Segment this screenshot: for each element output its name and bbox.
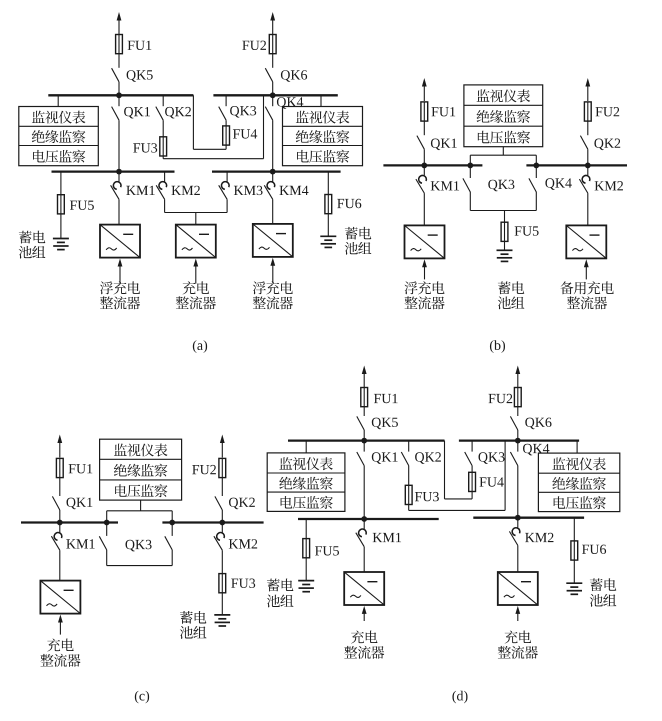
wire bus to QK3 right blade (c) bbox=[171, 523, 173, 536]
wire FU5 to battery (b) bbox=[504, 241, 506, 250]
label QK4 (a) bbox=[277, 97, 303, 109]
bus I right section (a) bbox=[213, 94, 337, 96]
wire QK4 to bus II (d) bbox=[517, 466, 519, 518]
wire QK2 to FU3 (a) bbox=[162, 120, 164, 137]
label 浮充电 (b) bbox=[405, 281, 445, 294]
switch QK6 (d) bbox=[510, 416, 517, 430]
fuse FU1 (b) bbox=[421, 102, 428, 121]
bus I right (d) bbox=[459, 439, 579, 441]
wire bus I to left monitor box (d) bbox=[305, 441, 307, 453]
junction QK1/bus (c) bbox=[57, 520, 63, 526]
diagram (d): feeder 1 arrow bbox=[362, 366, 367, 389]
diagram (c): feeder 1 arrow bbox=[57, 435, 62, 458]
wire monitor tap left drop (b) bbox=[469, 155, 471, 165]
wire KM3 down (a) bbox=[226, 199, 228, 212]
monitoring box right (d) row1 监视仪表 bbox=[552, 457, 606, 470]
label 蓄电 (b) bbox=[498, 281, 524, 294]
wire FU1 to QK1 (b) bbox=[423, 121, 425, 135]
fuse FU2 (a) bbox=[269, 35, 276, 54]
wire bus I to QK4 (a) bbox=[272, 95, 274, 106]
monitoring box left (d) row3 电压监察 bbox=[281, 496, 333, 509]
wire FU5 to battery (d) bbox=[305, 558, 307, 581]
wire bus I to monitor box (a) bbox=[57, 95, 59, 106]
label QK1 (c) bbox=[67, 498, 93, 510]
junction QK6/bus I (a) bbox=[270, 92, 276, 98]
label 整流器 rect1 (a) bbox=[100, 296, 140, 309]
bus II left section (a) bbox=[52, 170, 175, 172]
contactor KM1 (c) bbox=[51, 523, 61, 551]
label 蓄电 left (a) bbox=[19, 231, 45, 244]
monitoring box right (a) row2 绝缘监察 bbox=[296, 130, 350, 143]
switch QK5 (d) bbox=[357, 416, 364, 430]
contactor KM4 (a) bbox=[264, 172, 274, 200]
monitoring box (c) row2 绝缘监察 bbox=[114, 464, 168, 477]
contactor KM2 (d) bbox=[509, 518, 519, 546]
wire FU2 to QK2 (b) bbox=[587, 121, 589, 135]
fuse FU5 (d) bbox=[303, 539, 310, 558]
wire bus I to QK2 (a) bbox=[162, 95, 164, 106]
label QK2 (b) bbox=[594, 139, 620, 151]
label KM1 (d) bbox=[373, 533, 401, 542]
label QK4 (b) bbox=[545, 178, 571, 190]
junction QK4/bus II (a) bbox=[270, 169, 276, 175]
wire QK1 to bus (c) bbox=[59, 510, 61, 523]
switch QK2 (a) bbox=[156, 107, 163, 121]
label QK5 (a) bbox=[127, 70, 153, 82]
battery bank right (d) bbox=[566, 583, 582, 594]
switch QK3 right pole (c) bbox=[165, 536, 172, 550]
switch QK1 (d) bbox=[357, 452, 364, 466]
wire QK6 to bus I (a) bbox=[272, 82, 274, 96]
fuse FU2 (c) bbox=[219, 458, 226, 477]
label FU5 (d) bbox=[315, 546, 339, 555]
wire monitor box tap down (b) bbox=[502, 147, 504, 156]
label 池组 left (d) bbox=[267, 595, 294, 608]
label 池组 right (d) bbox=[590, 594, 617, 607]
label 蓄电 left (d) bbox=[267, 579, 293, 592]
wire bus to QK4 (b) bbox=[535, 165, 537, 178]
label QK3 (c) bbox=[125, 540, 151, 552]
wire FU1 to QK1 (c) bbox=[59, 478, 61, 496]
monitoring box left (a) row3 电压监察 bbox=[33, 150, 85, 163]
switch QK4 (b) bbox=[529, 178, 536, 192]
wire monitor box tap down (c) bbox=[140, 500, 142, 511]
caption (b) bbox=[490, 340, 505, 353]
label QK1 (b) bbox=[431, 139, 457, 151]
battery bank (b) bbox=[497, 250, 513, 261]
switch QK6 (a) bbox=[265, 68, 272, 82]
label 整流器 right (b) bbox=[567, 296, 607, 309]
monitoring box right (d) bbox=[538, 453, 619, 512]
wire bus II to FU5 (a) bbox=[60, 172, 62, 195]
wire QK5 to bus I (a) bbox=[118, 82, 120, 96]
wire FU2 to QK2 (c) bbox=[221, 478, 223, 496]
monitoring box left (d) row2 绝缘监察 bbox=[279, 477, 333, 490]
rectifier charging left (d) bbox=[344, 572, 384, 621]
wire KM1 to rectifier 1 (a) bbox=[118, 199, 120, 224]
monitoring box (c) row3 电压监察 bbox=[115, 484, 167, 497]
bus left section (b) bbox=[383, 164, 482, 166]
fuse FU6 (d) bbox=[571, 541, 578, 560]
monitoring box (c) row1 监视仪表 bbox=[114, 444, 168, 457]
wire bus II to FU5 (d) bbox=[305, 519, 307, 539]
switch QK2 (b) bbox=[580, 136, 587, 150]
wire QK3 top (a) bbox=[225, 95, 227, 106]
fuse FU3 (d) bbox=[405, 485, 412, 504]
label FU2 (a) bbox=[242, 41, 266, 50]
tie wire vertical to bus I right (a) bbox=[263, 95, 265, 158]
switch QK3 (b) bbox=[463, 178, 470, 192]
wire bus II to FU6 (d) bbox=[573, 518, 575, 541]
label 充电 (c) bbox=[47, 638, 74, 651]
battery bank (c) bbox=[214, 615, 230, 626]
junction QK6/bus I (d) bbox=[515, 438, 521, 444]
wire KM4 to rectifier 3 (a) bbox=[272, 199, 274, 224]
wire joining KM2 KM3 (a) bbox=[165, 212, 228, 214]
wire bus to QK3 (b) bbox=[469, 165, 471, 178]
wire FU5 to battery (a) bbox=[60, 214, 62, 239]
monitoring box (b) row1 监视仪表 bbox=[477, 89, 530, 102]
wire monitor tap right drop (b) bbox=[535, 155, 537, 165]
label 蓄电 right (d) bbox=[590, 578, 616, 591]
label QK3 (a) bbox=[230, 106, 256, 118]
label 池组 (b) bbox=[498, 296, 525, 309]
label 池组 left (a) bbox=[19, 246, 46, 259]
wire QK5 to bus I (d) bbox=[363, 430, 365, 441]
label QK2 (d) bbox=[415, 452, 441, 464]
monitoring box left (d) row1 监视仪表 bbox=[279, 457, 333, 470]
junction QK2/bus (b) bbox=[585, 163, 591, 169]
wire KM2 to rectifier (b) bbox=[587, 193, 589, 225]
wire QK6 to bus I (d) bbox=[517, 430, 519, 441]
rectifier charging right (d) bbox=[498, 572, 538, 621]
wire KM1 to rectifier (d) bbox=[363, 547, 365, 572]
wire QK3-QK4 join (b) bbox=[470, 210, 536, 212]
battery bank left (d) bbox=[298, 581, 314, 592]
battery bank right (a) bbox=[320, 236, 336, 247]
fuse FU2 (b) bbox=[584, 102, 591, 121]
junction QK2/bus (c) bbox=[219, 520, 225, 526]
contactor KM3 (a) bbox=[219, 172, 229, 200]
junction QK1/bus II (a) bbox=[116, 169, 122, 175]
label FU4 (a) bbox=[233, 129, 257, 138]
fuse FU1 (d) bbox=[361, 388, 368, 407]
tie wire horizontal QK3 path (a) bbox=[193, 148, 226, 150]
switch QK3 left pole (c) bbox=[99, 536, 106, 550]
wire bus I to QK1 (a) bbox=[118, 95, 120, 106]
label 浮充电 rect1 (a) bbox=[100, 281, 140, 294]
label KM1 (a) bbox=[126, 186, 154, 195]
monitoring box (b) row2 绝缘监察 bbox=[477, 110, 531, 123]
monitoring box right (d) row2 绝缘监察 bbox=[552, 477, 606, 490]
wire monitor tap right drop (c) bbox=[171, 511, 173, 523]
label FU1 (b) bbox=[432, 107, 456, 116]
monitoring box (b) bbox=[464, 85, 543, 147]
monitoring box right (a) row3 电压监察 bbox=[297, 150, 349, 163]
label FU3 (a) bbox=[133, 143, 157, 152]
wire bus I to QK1 (d) bbox=[363, 441, 365, 452]
battery bank left (a) bbox=[53, 239, 69, 250]
bus II left (d) bbox=[298, 518, 439, 520]
rectifier 3 float-charging (a) bbox=[253, 224, 293, 283]
label 备用充电 (b) bbox=[560, 281, 614, 294]
label KM2 (d) bbox=[525, 533, 553, 542]
contactor KM2 (c) bbox=[214, 523, 224, 551]
caption (d) bbox=[452, 691, 467, 704]
bus left section (c) bbox=[21, 521, 118, 523]
diagram (d): feeder 2 arrow bbox=[515, 366, 520, 389]
wire monitor tap horizontal (b) bbox=[470, 154, 536, 156]
label 整流器 rect2 (a) bbox=[176, 296, 216, 309]
label FU4 (d) bbox=[480, 477, 504, 486]
wire bus I to right monitor box (d) bbox=[576, 441, 578, 454]
wire FU4 to tie (d) bbox=[471, 491, 473, 499]
label 整流器 left (b) bbox=[404, 296, 444, 309]
wire FU6 to battery (a) bbox=[327, 214, 329, 237]
tie wire horizontal QK3 path (d) bbox=[445, 498, 473, 500]
label 蓄电 (c) bbox=[180, 611, 206, 624]
wire QK3 to FU4 (a) bbox=[225, 120, 227, 126]
switch QK2 (d) bbox=[401, 452, 408, 466]
label FU2 (d) bbox=[489, 394, 513, 403]
monitoring box left (a) row1 监视仪表 bbox=[32, 111, 86, 124]
diagram (b): feeder 1 arrow bbox=[422, 78, 427, 101]
switch QK2 (c) bbox=[215, 496, 222, 510]
label 池组 right (a) bbox=[345, 242, 372, 255]
rectifier 2 charging (a) bbox=[176, 225, 216, 284]
wire QK4 down (b) bbox=[535, 192, 537, 211]
label KM2 (a) bbox=[172, 186, 200, 195]
wire FU2 to QK6 (a) bbox=[272, 54, 274, 68]
label FU3 (c) bbox=[231, 579, 255, 588]
tie vertical from bus I left end (a) bbox=[192, 95, 194, 149]
wire KM2 to FU3 (c) bbox=[221, 550, 223, 574]
label FU3 (d) bbox=[415, 492, 439, 501]
diagram (b): feeder 2 arrow bbox=[585, 78, 590, 101]
label 蓄电 right (a) bbox=[345, 227, 371, 240]
label 整流器 right (d) bbox=[498, 646, 538, 659]
contactor KM1 (d) bbox=[356, 519, 366, 547]
wire FU3 down (d) bbox=[408, 505, 410, 511]
label 浮充电 rect3 (a) bbox=[253, 281, 293, 294]
wire QK2 to bus (b) bbox=[587, 149, 589, 165]
bus I left section (a) bbox=[48, 94, 193, 96]
wire monitor tap left drop (c) bbox=[106, 511, 108, 523]
wire bus I to right monitor box (a) bbox=[320, 95, 322, 106]
switch QK5 (a) bbox=[112, 68, 119, 82]
label QK1 (a) bbox=[124, 107, 150, 119]
label FU2 (c) bbox=[192, 465, 216, 474]
wire bus II to FU6 (a) bbox=[327, 172, 329, 195]
wire QK2 to bus (c) bbox=[221, 510, 223, 523]
fuse FU3 (c) bbox=[219, 574, 226, 593]
junction QK5/bus I (a) bbox=[116, 92, 122, 98]
contactor KM2 (a) bbox=[156, 172, 166, 200]
label KM2 (b) bbox=[595, 181, 623, 190]
fuse FU5 (a) bbox=[58, 195, 65, 214]
label QK6 (a) bbox=[281, 70, 307, 82]
monitoring box left (a) row2 绝缘监察 bbox=[32, 130, 86, 143]
monitoring box left (a) bbox=[19, 107, 99, 166]
diagram (a): incoming feeder 2 arrow bbox=[270, 12, 275, 35]
monitoring box right (d) row3 电压监察 bbox=[554, 496, 606, 509]
label FU5 (a) bbox=[70, 201, 94, 210]
label FU6 (d) bbox=[582, 545, 606, 554]
label FU2 (b) bbox=[596, 107, 620, 116]
wire KM1 to rectifier (b) bbox=[423, 193, 425, 225]
label QK6 (d) bbox=[525, 418, 551, 430]
label KM3 (a) bbox=[234, 186, 263, 195]
rectifier backup charging (b) bbox=[566, 225, 606, 279]
label 池组 (c) bbox=[180, 626, 207, 639]
label FU6 (a) bbox=[337, 199, 361, 208]
tie vertical to bus I right (d) bbox=[504, 441, 506, 511]
wire QK1 to bus (b) bbox=[423, 149, 425, 165]
bus II right section (a) bbox=[212, 170, 341, 172]
wire monitor tap horizontal (c) bbox=[107, 510, 173, 512]
fuse FU1 (a) bbox=[116, 35, 123, 54]
switch QK1 (a) bbox=[112, 107, 119, 121]
fuse FU2 (d) bbox=[514, 388, 521, 407]
wire bus I to QK4 (d) bbox=[517, 441, 519, 452]
label FU1 (c) bbox=[69, 464, 93, 473]
switch QK4 (a) bbox=[265, 107, 272, 121]
wire QK2 top (d) bbox=[408, 441, 410, 452]
label QK3 (b) bbox=[488, 180, 514, 192]
fuse FU3 (a) bbox=[160, 137, 167, 156]
junction QK4/bus II (d) bbox=[515, 515, 521, 521]
wire QK2 to FU3 (d) bbox=[408, 466, 410, 486]
label 充电 left (d) bbox=[351, 630, 378, 643]
monitoring box right (a) row1 监视仪表 bbox=[296, 111, 350, 124]
label QK5 (d) bbox=[372, 418, 398, 430]
label FU5 (b) bbox=[515, 226, 539, 235]
wire QK3 bottom join (c) bbox=[107, 565, 173, 567]
wire QK3 down (b) bbox=[469, 192, 471, 211]
label QK2 (c) bbox=[229, 498, 255, 510]
monitoring box left (d) bbox=[267, 453, 345, 512]
junction QK1/bus II (d) bbox=[361, 516, 367, 522]
wire QK1 to bus II (a) bbox=[118, 120, 120, 171]
junction bridge right/bus (c) bbox=[169, 520, 175, 526]
label KM1 (b) bbox=[431, 181, 459, 190]
wire QK3 right down (c) bbox=[171, 550, 173, 566]
monitoring box (b) row3 电压监察 bbox=[478, 131, 530, 144]
label FU1 (d) bbox=[374, 394, 398, 403]
wire KM1 to rectifier (c) bbox=[59, 550, 61, 580]
wire FU1 to QK5 (a) bbox=[118, 54, 120, 68]
label KM2 (c) bbox=[229, 539, 257, 548]
switch QK1 (c) bbox=[52, 496, 59, 510]
fuse FU4 (d) bbox=[469, 472, 476, 491]
label QK4 (d) bbox=[523, 444, 549, 456]
wire to rectifier 2 (a) bbox=[195, 213, 197, 225]
rectifier charging (c) bbox=[40, 581, 80, 635]
label 充电 rect2 (a) bbox=[183, 281, 210, 294]
wire QK4 to bus II (a) bbox=[272, 120, 274, 171]
tie vertical from bus I left end (d) bbox=[444, 441, 446, 499]
label FU1 (a) bbox=[128, 41, 152, 50]
wire KM2 down (a) bbox=[164, 199, 166, 212]
contactor KM1 (a) bbox=[111, 172, 121, 200]
junction bridge left/bus (c) bbox=[104, 520, 110, 526]
diagram (c): feeder 2 arrow bbox=[220, 435, 225, 458]
rectifier float-charging (b) bbox=[405, 225, 445, 279]
label QK3 (d) bbox=[479, 452, 505, 464]
wire FU1 to QK5 (d) bbox=[363, 407, 365, 416]
wire FU4 to tie (a) bbox=[225, 145, 227, 149]
bus right section (c) bbox=[162, 521, 263, 523]
wire QK1 to bus II (d) bbox=[363, 466, 365, 519]
diagram (a): incoming feeder 1 arrow bbox=[117, 12, 122, 35]
wire FU2 to QK6 (d) bbox=[517, 407, 519, 416]
switch QK1 (b) bbox=[417, 136, 424, 150]
bus right section (b) bbox=[526, 164, 627, 166]
wire KM2 to rectifier (d) bbox=[517, 545, 519, 572]
label QK2 (a) bbox=[165, 107, 191, 119]
switch QK3 (a) bbox=[219, 107, 226, 121]
bus I left (d) bbox=[288, 439, 445, 441]
bus II right (d) bbox=[473, 517, 584, 519]
junction QK5/bus I (d) bbox=[361, 438, 367, 444]
label 整流器 rect3 (a) bbox=[253, 296, 293, 309]
contactor KM2 (b) bbox=[579, 165, 589, 193]
wire QK3 left down (c) bbox=[106, 550, 108, 566]
label 整流器 left (d) bbox=[344, 646, 384, 659]
label 充电 right (d) bbox=[505, 630, 532, 643]
tie wire horizontal QK2 path (a) bbox=[163, 158, 263, 160]
monitoring box (c) bbox=[100, 439, 182, 500]
fuse FU6 (a) bbox=[325, 195, 332, 214]
caption (a) bbox=[193, 340, 207, 353]
label KM4 (a) bbox=[280, 186, 309, 195]
monitoring box right (a) bbox=[283, 107, 363, 166]
wire QK3 top (d) bbox=[471, 441, 473, 452]
junction QK4/bus (b) bbox=[533, 163, 539, 169]
wire FU3 down (a) bbox=[162, 156, 164, 159]
rectifier 1 float-charging (a) bbox=[100, 225, 140, 284]
fuse FU5 (b) bbox=[501, 222, 508, 241]
tie wire horizontal QK2 path (d) bbox=[409, 509, 505, 511]
junction QK3/bus (b) bbox=[467, 163, 473, 169]
label 整流器 (c) bbox=[40, 654, 80, 667]
label KM1 (c) bbox=[66, 539, 94, 548]
caption (c) bbox=[135, 691, 149, 704]
contactor KM1 (b) bbox=[416, 165, 426, 193]
wire bus to QK3 left blade (c) bbox=[106, 523, 108, 536]
switch QK3 (d) bbox=[465, 452, 472, 466]
fuse FU1 (c) bbox=[56, 458, 63, 477]
wire join to FU5 (b) bbox=[504, 211, 506, 223]
wire FU6 to battery (d) bbox=[573, 560, 575, 583]
fuse FU4 (a) bbox=[223, 126, 230, 145]
switch QK4 (d) bbox=[510, 452, 517, 466]
wire FU3 to battery (c) bbox=[221, 593, 223, 615]
wire QK3 to FU4 (d) bbox=[471, 466, 473, 473]
label QK1 (d) bbox=[372, 452, 398, 464]
junction QK1/bus (b) bbox=[421, 163, 427, 169]
